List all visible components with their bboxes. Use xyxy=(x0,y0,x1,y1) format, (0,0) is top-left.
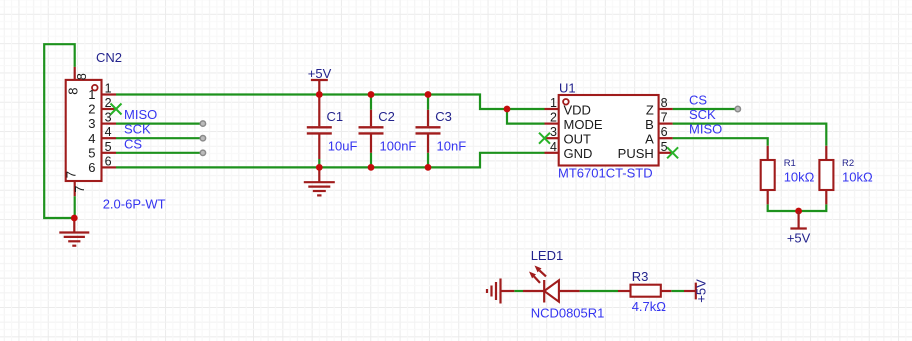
svg-text:PUSH: PUSH xyxy=(618,146,654,161)
U1 pin names right xyxy=(618,102,654,161)
wire gnd to LED xyxy=(514,290,523,292)
svg-text:8: 8 xyxy=(66,87,81,94)
wire C1 bottom xyxy=(318,159,320,167)
CN2 pin 2 xyxy=(102,108,117,110)
svg-text:6: 6 xyxy=(88,160,95,175)
wire pin8 CN2 to ground loop xyxy=(44,44,74,218)
svg-text:MISO: MISO xyxy=(689,122,722,137)
svg-text:C3: C3 xyxy=(435,109,452,124)
svg-text:CS: CS xyxy=(689,93,707,108)
U1 pin 4 stub xyxy=(545,152,559,154)
svg-text:10nF: 10nF xyxy=(437,139,467,154)
ground under C1 xyxy=(304,167,335,195)
wire MISO to R1 xyxy=(673,138,768,146)
svg-text:A: A xyxy=(645,132,654,147)
wire pin7 CN2 to ground xyxy=(74,196,76,218)
junction C1 top rail xyxy=(316,91,323,98)
svg-text:+5V: +5V xyxy=(787,231,811,246)
resistor R3 xyxy=(618,290,631,292)
wire CS left xyxy=(116,152,203,154)
junction C1 bottom rail xyxy=(316,164,323,171)
wire GND bottom rail xyxy=(116,153,545,168)
svg-text:CN2: CN2 xyxy=(96,50,122,65)
svg-text:4: 4 xyxy=(105,125,112,139)
junction C2 bottom rail xyxy=(368,164,375,171)
svg-text:B: B xyxy=(645,117,654,132)
junction C3 top rail xyxy=(425,91,432,98)
U1 pin names left xyxy=(564,102,603,161)
svg-text:2: 2 xyxy=(88,102,95,117)
svg-text:10kΩ: 10kΩ xyxy=(842,170,873,185)
junction C3 bottom rail xyxy=(425,164,432,171)
svg-text:4: 4 xyxy=(550,140,557,154)
wire C3 bottom xyxy=(427,153,429,168)
capacitor C1 xyxy=(307,98,332,160)
CN2 pin 6 xyxy=(102,166,117,168)
gray endpoint dot CS xyxy=(200,150,205,155)
svg-text:CS: CS xyxy=(124,136,142,151)
svg-text:7: 7 xyxy=(73,186,87,193)
svg-text:U1: U1 xyxy=(559,81,576,96)
svg-text:Z: Z xyxy=(646,102,654,117)
wire C2 bottom xyxy=(370,153,372,168)
svg-text:2.0-6P-WT: 2.0-6P-WT xyxy=(103,197,166,212)
CN2 pin1 indicator circle xyxy=(92,85,98,91)
U1 pin 5 stub xyxy=(659,152,673,154)
svg-text:NCD0805R1: NCD0805R1 xyxy=(531,306,605,321)
svg-text:GND: GND xyxy=(564,146,593,161)
svg-text:LED1: LED1 xyxy=(531,248,564,263)
op IC U1 MT6701 xyxy=(559,95,659,166)
wire VDD to MODE xyxy=(507,109,545,124)
svg-text:5: 5 xyxy=(88,145,95,160)
wire SCK left xyxy=(116,137,203,139)
gray endpoint dot MISO xyxy=(200,121,205,126)
svg-text:4.7kΩ: 4.7kΩ xyxy=(632,299,667,314)
svg-text:4: 4 xyxy=(88,131,95,146)
svg-text:VDD: VDD xyxy=(564,102,591,117)
svg-text:R3: R3 xyxy=(632,269,649,284)
CN2 pin numbers 1-6 xyxy=(105,82,112,169)
svg-text:R2: R2 xyxy=(842,158,854,169)
svg-text:MT6701CT-STD: MT6701CT-STD xyxy=(558,166,653,181)
svg-text:7: 7 xyxy=(64,171,79,178)
wire C2 top xyxy=(370,95,372,110)
+5V flag right (pointing right) xyxy=(684,283,696,300)
U1 pin 3 stub xyxy=(545,137,559,139)
U1 pin 7 stub xyxy=(659,122,673,124)
LED LED1 xyxy=(523,290,544,292)
wire C3 top xyxy=(427,95,429,110)
wire R3 to +5V xyxy=(671,290,684,292)
junction dot R bottoms xyxy=(795,208,802,215)
junction C2 top rail xyxy=(368,91,375,98)
svg-text:R1: R1 xyxy=(784,158,796,169)
svg-text:1: 1 xyxy=(88,87,95,102)
svg-text:5: 5 xyxy=(661,140,668,154)
CN2 pin 3 xyxy=(102,122,117,124)
U1 pin 6 stub xyxy=(659,137,673,139)
svg-text:2: 2 xyxy=(105,96,112,110)
svg-text:C2: C2 xyxy=(378,109,395,124)
no-connect X on U1 pin5 xyxy=(667,147,678,158)
svg-text:MODE: MODE xyxy=(564,117,603,132)
svg-text:5: 5 xyxy=(105,140,112,154)
gray endpoint dot SCK xyxy=(200,136,205,141)
wire R1 R2 bottoms to +5V xyxy=(768,204,827,211)
wire LED to R3 xyxy=(580,290,618,292)
CN2 pin 7 stub xyxy=(74,181,76,196)
CN2 pin 8 stub xyxy=(74,67,76,80)
svg-text:10uF: 10uF xyxy=(328,139,358,154)
svg-text:100nF: 100nF xyxy=(380,139,417,154)
CN2 pin 1 xyxy=(102,93,117,95)
U1 pin 8 stub xyxy=(659,108,673,110)
svg-text:+5V: +5V xyxy=(308,66,332,81)
CN2 pin 4 xyxy=(102,137,117,139)
svg-text:1: 1 xyxy=(105,82,112,96)
+5V flag top xyxy=(311,80,328,95)
svg-text:SCK: SCK xyxy=(689,107,716,122)
LED arrow 1 xyxy=(540,270,547,276)
U1 pin numbers right xyxy=(661,96,668,154)
LED cathode bar xyxy=(543,280,545,303)
svg-text:8: 8 xyxy=(661,96,668,110)
wire SCK to R2 xyxy=(673,124,827,146)
svg-text:SCK: SCK xyxy=(124,122,151,137)
CN2 pin names 1-6 xyxy=(88,87,95,175)
svg-text:+5V: +5V xyxy=(694,279,709,303)
CN2 pin 5 xyxy=(102,152,117,154)
+5V flag bottom (pointing down) xyxy=(790,211,806,229)
ground left of LED (pointing left) xyxy=(487,279,514,304)
U1 pin numbers left xyxy=(550,96,557,154)
wire +5V top rail xyxy=(116,95,545,110)
resistor R2 xyxy=(825,146,827,160)
junction VDD branch xyxy=(504,106,511,113)
svg-text:6: 6 xyxy=(661,125,668,139)
svg-text:1: 1 xyxy=(550,96,557,110)
wire MISO left xyxy=(116,122,203,124)
gray endpoint dot CS right xyxy=(735,106,740,111)
LED triangle xyxy=(544,280,559,301)
svg-text:3: 3 xyxy=(88,116,95,131)
no-connect X on U1 pin3 xyxy=(539,133,550,144)
svg-text:MISO: MISO xyxy=(124,107,157,122)
svg-text:10kΩ: 10kΩ xyxy=(784,170,815,185)
U1 pin1 indicator circle xyxy=(563,99,569,105)
ground under CN2 xyxy=(59,218,89,246)
capacitor C2 xyxy=(359,110,384,153)
LED arrow 2 xyxy=(534,276,540,283)
U1 pin 1 stub xyxy=(545,108,559,110)
svg-text:2: 2 xyxy=(550,111,557,125)
svg-text:6: 6 xyxy=(105,154,112,168)
junction dot CN2 ground xyxy=(71,215,78,222)
svg-text:3: 3 xyxy=(550,125,557,139)
svg-text:C1: C1 xyxy=(327,109,344,124)
svg-text:7: 7 xyxy=(661,111,668,125)
connector CN2 xyxy=(66,80,102,181)
capacitor C3 xyxy=(416,110,441,153)
no-connect X on CN2 pin2 xyxy=(111,104,122,115)
svg-text:OUT: OUT xyxy=(564,132,592,147)
svg-text:3: 3 xyxy=(105,111,112,125)
U1 pin 2 stub xyxy=(545,122,559,124)
resistor R1 xyxy=(767,146,769,160)
wire CS right xyxy=(673,108,738,110)
svg-text:8: 8 xyxy=(75,73,89,80)
